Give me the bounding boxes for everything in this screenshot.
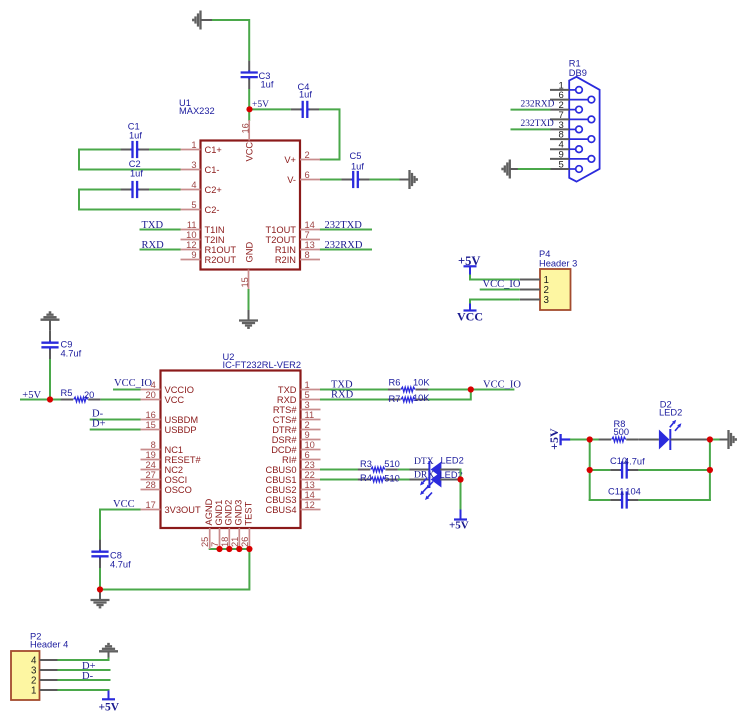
U2 pin 21 GND3 stub (bottom)	[238, 528, 240, 549]
svg-text:4.7uf: 4.7uf	[110, 559, 131, 569]
ground symbol (rotated, left of C3 net)	[193, 11, 200, 30]
svg-text:VCC: VCC	[113, 499, 135, 510]
wire 232RXD from U1 pin 13	[320, 249, 372, 251]
svg-text:R3: R3	[360, 459, 372, 469]
svg-text:T1IN: T1IN	[205, 225, 225, 235]
IC U2 FT232RL body	[161, 371, 301, 529]
R1 pin 8 circle	[588, 136, 595, 143]
svg-text:USBDM: USBDM	[165, 415, 199, 425]
LED DTX (LED2)	[429, 461, 441, 478]
lead LED DTX to +5V corner	[440, 469, 461, 471]
svg-text:+5V: +5V	[449, 520, 469, 532]
wire left branch to C11	[589, 499, 611, 501]
svg-text:VCC: VCC	[457, 310, 483, 324]
svg-text:RTS#: RTS#	[273, 405, 297, 415]
junction node C8 / ground	[97, 586, 103, 592]
svg-text:R1OUT: R1OUT	[205, 245, 237, 255]
svg-text:CBUS1: CBUS1	[265, 475, 296, 485]
capacitor C3	[241, 61, 258, 89]
R1 pin 4 circle	[576, 146, 583, 153]
wire 232RXD to R1 pin 2	[511, 109, 551, 111]
lead R8 to LED D2	[639, 439, 659, 441]
supply +5V symbol at P4 pin 1	[464, 266, 477, 275]
wire VCC_IO node to label	[471, 389, 515, 391]
svg-text:1uf: 1uf	[130, 168, 143, 178]
lead LED DRX to +5V node	[440, 479, 461, 481]
R1 pin 1 circle	[576, 87, 583, 94]
R1 pin 4 stub	[550, 148, 569, 150]
svg-text:DB9: DB9	[569, 68, 587, 78]
wire R5 to U2 pin 20	[101, 399, 141, 401]
svg-text:17: 17	[145, 500, 155, 510]
svg-text:9: 9	[191, 250, 196, 260]
+5V below P2	[102, 691, 115, 700]
wire 232TXD from U1 pin 14	[320, 229, 372, 231]
wire U1 pin 15 to ground	[248, 289, 250, 311]
svg-text:10: 10	[186, 230, 196, 240]
U1 pin 16 VCC stub (top)	[248, 120, 250, 141]
resistor R8	[599, 437, 639, 442]
U2 pin 25 AGND stub (bottom)	[209, 528, 211, 549]
svg-text:8: 8	[151, 440, 156, 450]
wire VCC to P4 pin 3	[470, 300, 520, 305]
R1 pin 3 circle	[576, 126, 583, 133]
svg-text:C2+: C2+	[205, 185, 222, 195]
svg-text:6: 6	[305, 170, 310, 180]
svg-text:20: 20	[145, 390, 155, 400]
R1 pin 6 circle	[588, 96, 595, 103]
ground symbol at R1 pin 5	[503, 160, 510, 179]
svg-text:CBUS2: CBUS2	[265, 485, 296, 495]
R1 pin 1 lead	[569, 89, 576, 91]
capacitor C1	[121, 141, 149, 158]
svg-text:13: 13	[305, 240, 315, 250]
junction U2 GND2 junction	[226, 546, 232, 552]
svg-text:3: 3	[305, 400, 310, 410]
wire gnd stub above P2	[108, 651, 110, 658]
R1 pin 3 stub	[550, 128, 569, 130]
wire left branch to C10	[590, 469, 611, 471]
R1 pin 3 lead	[569, 128, 576, 130]
svg-text:104: 104	[625, 487, 641, 497]
svg-text:15: 15	[240, 277, 250, 287]
wire V- pin 6 to C5	[320, 179, 341, 181]
wire P2 pin 3 D+	[57, 669, 110, 671]
wire R7 to VCC_IO node	[428, 390, 471, 400]
junction node left / C10	[587, 467, 593, 473]
svg-text:19: 19	[145, 450, 155, 460]
svg-text:500: 500	[614, 427, 630, 437]
U1 pin 14 T1OUT stub	[300, 229, 320, 231]
connector P4 Header 3 body	[540, 269, 571, 310]
svg-text:R4: R4	[360, 473, 372, 483]
svg-text:28: 28	[145, 480, 155, 490]
svg-text:CBUS4: CBUS4	[265, 505, 296, 515]
U2 pin 8 NC1 stub	[141, 449, 161, 451]
R1 pin 6 stub	[550, 99, 569, 101]
svg-text:5: 5	[559, 159, 564, 170]
svg-text:R6: R6	[389, 378, 401, 388]
svg-text:3: 3	[544, 295, 550, 306]
svg-text:510: 510	[384, 473, 400, 483]
wire C1 left to pin1 loop	[79, 150, 181, 170]
svg-text:1: 1	[305, 380, 310, 390]
svg-text:21: 21	[230, 537, 240, 547]
supply +5V symbol left of R8 (rotated)	[559, 434, 561, 445]
svg-text:1uf: 1uf	[261, 80, 274, 90]
R1 pin 7 stub	[550, 118, 569, 120]
U2 pin 10 DCD# stub	[301, 449, 321, 451]
U1 pin 7 T2OUT stub	[300, 239, 320, 241]
svg-text:232RXD: 232RXD	[521, 99, 555, 109]
U2 pin 4 VCCIO stub	[141, 389, 161, 391]
svg-text:2: 2	[305, 420, 310, 430]
svg-text:DSR#: DSR#	[272, 435, 298, 445]
ground symbol below C8	[91, 600, 110, 607]
U2 pin 26 TEST stub (bottom)	[248, 528, 250, 549]
wire C10 to right branch	[639, 469, 710, 471]
ground symbol above P2	[99, 644, 118, 651]
svg-text:25: 25	[200, 537, 210, 547]
LED DRX (LED2)	[429, 471, 441, 488]
U1 pin 1 C1+ stub	[181, 149, 201, 151]
U2 pin 16 USBDM stub	[141, 419, 161, 421]
svg-text:T2IN: T2IN	[205, 235, 225, 245]
svg-text:USBDP: USBDP	[165, 425, 197, 435]
svg-text:23: 23	[305, 460, 315, 470]
svg-text:AGND: AGND	[204, 498, 214, 525]
wire gnd to C9	[49, 320, 51, 331]
P4 pin 1 stub	[520, 279, 540, 281]
LED DTX emission arrows	[423, 478, 427, 482]
svg-text:14: 14	[305, 490, 315, 500]
ground symbol below U1	[239, 321, 258, 328]
wire left branch down	[589, 440, 591, 502]
svg-text:T2OUT: T2OUT	[266, 235, 297, 245]
wire ground rail from C8 to U2 TEST pin	[100, 549, 249, 590]
capacitor C8	[91, 540, 108, 568]
wire gnd stub below U1	[248, 310, 250, 320]
R1 pin 7 circle	[588, 116, 595, 123]
svg-text:LED2: LED2	[441, 456, 464, 466]
svg-text:1: 1	[31, 686, 36, 697]
svg-text:CBUS0: CBUS0	[265, 465, 296, 475]
svg-text:V-: V-	[287, 175, 296, 185]
svg-text:GND2: GND2	[224, 500, 234, 526]
svg-text:2: 2	[305, 150, 310, 160]
U2 pin 22 CBUS1 stub	[301, 479, 321, 481]
svg-text:+5V: +5V	[547, 428, 561, 450]
svg-text:3: 3	[191, 160, 196, 170]
svg-text:VCC: VCC	[244, 142, 254, 162]
svg-text:4.7uf: 4.7uf	[624, 457, 645, 467]
U1 pin 12 R1OUT stub	[181, 249, 201, 251]
U2 pin 7 GND1 stub (bottom)	[219, 528, 221, 549]
R1 pin 5 stub	[550, 168, 569, 170]
svg-text:+5V: +5V	[99, 702, 120, 714]
U1 pin 5 C2- stub	[181, 209, 201, 211]
wire U2 CBUS0 to R3	[320, 469, 358, 471]
U2 pin 2 DTR# stub	[301, 429, 321, 431]
svg-text:13: 13	[305, 480, 315, 490]
svg-text:12: 12	[186, 240, 196, 250]
supply VCC symbol at P4 pin 3	[469, 304, 471, 311]
U2 pin 19 RESET# stub	[141, 459, 161, 461]
wire C9 to +5V rail	[49, 359, 51, 401]
svg-text:9: 9	[305, 430, 310, 440]
svg-text:DCD#: DCD#	[271, 445, 297, 455]
svg-text:VCCIO: VCCIO	[165, 385, 194, 395]
svg-text:TXD: TXD	[278, 385, 297, 395]
junction U2 GND3 junction	[236, 546, 242, 552]
svg-text:1uf: 1uf	[299, 90, 312, 100]
LED D2	[659, 429, 670, 450]
wire +5V rail to R5	[20, 399, 61, 401]
R1 pin 5 lead	[569, 168, 576, 170]
svg-text:IC-FT232RL-VER2: IC-FT232RL-VER2	[223, 360, 302, 370]
resistor R4	[358, 477, 398, 482]
wire node to R8	[590, 439, 599, 441]
U1 pin 13 R1IN stub	[300, 249, 320, 251]
capacitor C9	[41, 331, 58, 359]
U2 pin 3 RTS# stub	[301, 409, 321, 411]
wire from ground to C3	[212, 20, 249, 61]
wire R6 to VCC_IO node	[428, 389, 471, 391]
R1 pin 4 lead	[569, 148, 576, 150]
svg-text:14: 14	[305, 220, 315, 230]
capacitor C5	[341, 171, 369, 188]
wire gnd stub to C3 net	[201, 19, 214, 21]
svg-text:8: 8	[305, 250, 310, 260]
svg-text:R2IN: R2IN	[275, 255, 296, 265]
P2 pin 3 stub	[40, 669, 58, 671]
wire C2 right to pin 4	[149, 189, 181, 191]
wire U2 bottom pins rail	[209, 548, 250, 550]
svg-text:10K: 10K	[413, 393, 430, 403]
U2 pin 23 CBUS0 stub	[301, 469, 321, 471]
R1 pin 8 lead	[569, 138, 588, 140]
wire TXD to U1 pin 11	[140, 229, 181, 231]
wire C2 left to pin5 loop	[79, 190, 181, 210]
svg-text:3V3OUT: 3V3OUT	[165, 505, 201, 515]
junction node right / C10	[707, 467, 713, 473]
svg-text:R5: R5	[61, 388, 73, 398]
junction U2 TEST junction	[246, 546, 252, 552]
U1 pin 4 C2+ stub	[181, 189, 201, 191]
U1 pin 10 T2IN stub	[181, 239, 201, 241]
U2 pin 14 CBUS3 stub	[301, 499, 321, 501]
U2 pin 28 OSCO stub	[141, 489, 161, 491]
U2 pin 5 RXD stub	[301, 399, 321, 401]
op-amp U1 MAX232 body	[201, 141, 301, 270]
+5V below LEDs	[454, 510, 467, 520]
wire ground to R1 pin 5	[518, 168, 551, 170]
U1 pin 6 V- stub	[300, 179, 320, 181]
svg-text:4.7uf: 4.7uf	[61, 349, 82, 359]
U1 pin 8 R2IN stub	[300, 259, 320, 261]
svg-text:510: 510	[384, 459, 400, 469]
U2 pin 17 3V3OUT stub	[141, 509, 161, 511]
svg-text:RI#: RI#	[282, 455, 297, 465]
svg-text:NC1: NC1	[165, 445, 184, 455]
lead R4 to LED DRX	[410, 479, 430, 481]
LED D2 emission arrows	[670, 423, 674, 427]
capacitor C10	[610, 461, 638, 478]
svg-text:C5: C5	[350, 151, 362, 161]
R1 pin 1 stub	[550, 89, 569, 91]
junction U2 GND1 junction	[216, 546, 222, 552]
svg-text:16: 16	[241, 123, 251, 133]
svg-text:4: 4	[151, 380, 156, 390]
svg-text:R1: R1	[569, 59, 581, 69]
U2 pin 11 CTS# stub	[301, 419, 321, 421]
wire RXD to U1 pin 12	[140, 249, 181, 251]
P2 pin 4 stub	[40, 659, 58, 661]
wire gnd stub below C8	[99, 590, 101, 600]
wire +5V to P4 pin 1	[470, 275, 520, 280]
U1 pin 11 T1IN stub	[181, 229, 201, 231]
svg-text:GND: GND	[244, 242, 254, 263]
resistor R6	[388, 387, 428, 392]
ground symbol right of D2	[729, 430, 736, 449]
wire U2 CBUS1 to R4	[320, 479, 358, 481]
svg-text:GND1: GND1	[214, 500, 224, 526]
resistor R3	[358, 467, 398, 472]
svg-text:R7: R7	[389, 394, 401, 404]
svg-text:6: 6	[305, 450, 310, 460]
svg-text:DTR#: DTR#	[272, 425, 297, 435]
wire +5V node down to U1 pin 16	[248, 109, 250, 121]
svg-text:15: 15	[145, 420, 155, 430]
wire C5 to ground	[370, 179, 401, 181]
capacitor C4	[291, 101, 319, 118]
wire C4 to V+ pin 2	[319, 109, 340, 159]
svg-text:11: 11	[187, 220, 197, 230]
svg-text:22: 22	[305, 470, 315, 480]
svg-text:5: 5	[191, 200, 196, 210]
U2 pin 13 CBUS2 stub	[301, 489, 321, 491]
svg-text:VCC_IO: VCC_IO	[114, 378, 152, 389]
wire to gnd node	[707, 439, 720, 441]
lead LED D2 to gnd node	[671, 439, 708, 441]
R1 pin 9 circle	[588, 156, 595, 163]
svg-text:11: 11	[305, 410, 315, 420]
wire LED node down to +5V symbol	[460, 469, 462, 511]
svg-text:4: 4	[191, 180, 196, 190]
junction node +5V / R8 / C10 C11 branch	[587, 436, 593, 442]
svg-text:Header 3: Header 3	[539, 259, 577, 269]
svg-text:26: 26	[240, 537, 250, 547]
svg-text:10K: 10K	[413, 378, 430, 388]
svg-text:CTS#: CTS#	[273, 415, 298, 425]
U2 pin 18 GND2 stub (bottom)	[228, 528, 230, 549]
resistor R7	[388, 397, 428, 402]
wire +5V node to C4	[250, 108, 291, 110]
R1 pin 9 lead	[569, 158, 588, 160]
LED DRX emission arrows	[423, 488, 427, 492]
junction node R6/R7 VCC_IO	[468, 386, 474, 392]
junction node +5V / C9 / R5	[47, 396, 53, 402]
svg-text:CBUS3: CBUS3	[265, 495, 296, 505]
svg-text:232TXD: 232TXD	[521, 119, 555, 129]
connector P2 Header 4 body	[11, 651, 40, 700]
svg-text:NC2: NC2	[165, 465, 184, 475]
svg-text:C11: C11	[608, 487, 624, 497]
wire C1 right to pin 1	[149, 149, 181, 151]
wire C11 to right branch	[639, 499, 711, 501]
svg-text:10: 10	[305, 440, 315, 450]
svg-text:VCC_IO: VCC_IO	[483, 279, 521, 290]
svg-text:RXD: RXD	[277, 395, 297, 405]
P2 pin 2 stub	[40, 679, 58, 681]
U2 pin 9 DSR# stub	[301, 439, 321, 441]
ground symbol right of C5	[410, 170, 417, 189]
P4 pin 2 stub	[520, 289, 540, 291]
svg-text:DRX: DRX	[414, 470, 434, 481]
wire gnd stub right of D2	[720, 439, 729, 441]
svg-text:T1OUT: T1OUT	[266, 225, 297, 235]
wire D- to U2 pin 16	[90, 419, 141, 421]
P4 pin 3 stub	[520, 299, 540, 301]
R1 pin 6 lead	[569, 99, 588, 101]
svg-text:TEST: TEST	[244, 501, 254, 525]
U1 pin 3 C1- stub	[181, 169, 201, 171]
wire P2 pin 4 to ground	[57, 657, 108, 661]
junction node D2 / C10 C11 right branch	[707, 436, 713, 442]
U2 pin 12 CBUS4 stub	[301, 509, 321, 511]
U2 pin 27 OSCI stub	[141, 479, 161, 481]
R1 pin 2 lead	[569, 109, 576, 111]
wire gnd stub at R1 pin 5	[510, 168, 519, 170]
svg-text:D+: D+	[92, 419, 106, 430]
svg-text:LED2: LED2	[659, 408, 682, 418]
wire R3 to LED DTX	[398, 469, 411, 471]
wire gnd stub right of C5	[400, 179, 410, 181]
R1 pin 9 stub	[550, 158, 569, 160]
svg-text:20: 20	[84, 390, 94, 400]
wire U2 RXD to R7	[320, 399, 388, 401]
wire R4 to LED DRX	[398, 479, 411, 481]
svg-text:27: 27	[145, 470, 155, 480]
U1 pin 9 R2OUT stub	[181, 259, 201, 261]
wire VCC_IO to P4 pin 2	[480, 289, 520, 291]
wire +5V to R8 node	[570, 439, 591, 441]
capacitor C11	[610, 491, 638, 508]
U1 pin 15 GND stub (bottom)	[248, 270, 250, 291]
svg-text:Header 4: Header 4	[30, 640, 68, 650]
lead R3 to LED DTX	[410, 469, 430, 471]
junction +5V node at U1 pin 16	[246, 106, 252, 112]
wire right branch down	[709, 440, 711, 502]
svg-text:RESET#: RESET#	[165, 455, 202, 465]
svg-text:C2-: C2-	[205, 205, 220, 215]
junction node LED DRX / +5V drop	[457, 476, 463, 482]
R1 pin 5 circle	[576, 166, 583, 173]
svg-text:5: 5	[305, 390, 310, 400]
R1 pin 2 stub	[550, 109, 569, 111]
svg-text:P4: P4	[539, 249, 550, 259]
svg-text:DTX: DTX	[414, 456, 434, 467]
U2 pin 15 USBDP stub	[141, 429, 161, 431]
wire VCC_IO to U2 pin 4	[113, 389, 141, 391]
wire C3 to +5V node	[248, 89, 250, 110]
svg-text:1uf: 1uf	[129, 131, 142, 141]
R1 pin 7 lead	[569, 118, 588, 120]
svg-text:VCC: VCC	[165, 395, 185, 405]
svg-text:24: 24	[145, 460, 155, 470]
U1 pin 2 V+ stub	[300, 159, 320, 161]
R1 pin 8 stub	[550, 138, 569, 140]
